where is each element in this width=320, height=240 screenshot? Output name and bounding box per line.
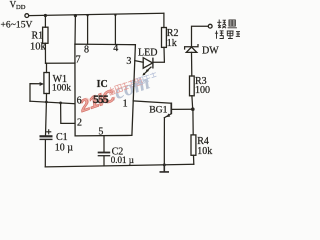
wire C2 to rail: [103, 156, 105, 166]
svg-text:DD: DD: [16, 4, 26, 11]
transistor BG1 base bar: [170, 103, 172, 115]
wire W1 top: [46, 63, 48, 72]
resistor R1: [43, 27, 48, 43]
svg-text:+6~15V: +6~15V: [1, 20, 33, 31]
node junction pin2 branch: [59, 102, 62, 105]
wire pin7 horizontal: [46, 62, 76, 64]
resistor R4: [191, 135, 196, 155]
wire rail to IC corner: [74, 16, 76, 45]
wire pin2: [61, 103, 75, 124]
wire W1 node down to C1: [45, 102, 48, 136]
wire R2 to LED cathode: [153, 47, 164, 62]
net: VDD label: [10, 0, 26, 11]
potentiometer W1 arrowhead: [40, 82, 44, 86]
wire pin3 to LED anode: [135, 61, 143, 63]
wire pin 4: [114, 15, 116, 45]
capacitor C1 plus sign: [46, 129, 51, 134]
LED cathode bar: [152, 58, 154, 69]
capacitor C2 top plate: [98, 152, 111, 154]
svg-text:BG1: BG1: [149, 104, 167, 115]
transistor BG1 emitter: [164, 114, 171, 118]
svg-text:1: 1: [123, 98, 128, 109]
svg-text:4: 4: [113, 43, 118, 54]
watermark CJK row pink: [107, 77, 142, 96]
wire R3 to junction: [191, 96, 194, 109]
wire pin 8: [87, 15, 89, 44]
wire R4 to rail: [193, 155, 195, 164]
zener DW cathode bar: [185, 45, 198, 49]
ground symbol: [160, 165, 170, 172]
wire R1 to pin7 node: [44, 43, 46, 63]
node junction IC-corner rail: [74, 14, 77, 17]
svg-text:C1: C1: [56, 132, 68, 143]
wire rail to R1: [44, 15, 46, 27]
svg-text:6: 6: [77, 95, 82, 106]
svg-text:7: 7: [76, 55, 81, 66]
wire bottom rail: [45, 164, 194, 167]
resistor R2: [162, 28, 167, 48]
wire terminal to zener: [192, 26, 209, 46]
node junction pin4 rail: [114, 14, 116, 16]
capacitor C2 bottom plate: [98, 155, 111, 157]
svg-text:2: 2: [77, 117, 82, 128]
LED triangle: [143, 58, 152, 68]
zener DW triangle: [186, 47, 197, 52]
wire W1 bottom: [45, 94, 47, 103]
capacitor C1 top plate: [40, 135, 53, 137]
wire emitter down to rail: [163, 118, 165, 165]
wire pin1 to collector: [133, 101, 171, 103]
wire top rail: [29, 13, 164, 15]
svg-text:R1: R1: [32, 31, 44, 42]
node junction base-divider: [191, 107, 195, 111]
capacitor C1 bottom plate: [40, 138, 53, 140]
svg-text:LED: LED: [138, 47, 157, 58]
potentiometer W1 body: [44, 73, 49, 94]
wire C1 to ground rail: [44, 140, 46, 167]
svg-text:555: 555: [93, 92, 109, 106]
watermark 21IC: [76, 86, 118, 116]
LED arrow 2: [142, 70, 148, 75]
terminal monitored voltage circle: [208, 24, 212, 28]
transistor BG1 emitter arrowhead: [167, 113, 171, 117]
svg-text:3: 3: [126, 56, 131, 67]
node junction W1-pin6: [45, 101, 48, 104]
svg-text:8: 8: [84, 45, 89, 56]
LED arrow 1: [146, 67, 151, 72]
wire pin5 to C2: [103, 136, 105, 152]
svg-text:100: 100: [195, 85, 210, 96]
watermark CJK row blue: [129, 72, 157, 88]
svg-text:1k: 1k: [167, 38, 177, 49]
watermark .com: [106, 70, 153, 106]
wire zener to R3: [191, 52, 193, 76]
wire rail down to R2: [163, 13, 165, 27]
potentiometer W1 arrow wire: [30, 84, 42, 102]
wire base to junction: [172, 108, 193, 110]
svg-text:0.01 µ: 0.01 µ: [111, 155, 134, 165]
label monitored voltage line1 (CJK drawn): [217, 20, 237, 29]
svg-text:10k: 10k: [30, 41, 47, 52]
watermark 21IC shadow: [77, 85, 119, 115]
node junction pin8 rail: [86, 14, 88, 16]
node junction R1-rail: [44, 14, 47, 17]
svg-text:DW: DW: [202, 45, 219, 56]
wire pin6 horizontal: [30, 101, 75, 104]
svg-text:5: 5: [98, 127, 103, 138]
IC box: [75, 44, 135, 136]
terminal VDD circle: [25, 14, 29, 18]
svg-text:100k: 100k: [52, 82, 71, 93]
svg-text:IC: IC: [97, 79, 108, 90]
node junction emitter-rail: [163, 163, 166, 166]
resistor R3: [190, 76, 195, 96]
label monitored voltage line2 (CJK drawn): [215, 31, 240, 39]
wire junction to R4: [192, 109, 194, 135]
svg-text:10k: 10k: [197, 146, 212, 157]
svg-text:10 µ: 10 µ: [55, 143, 74, 154]
